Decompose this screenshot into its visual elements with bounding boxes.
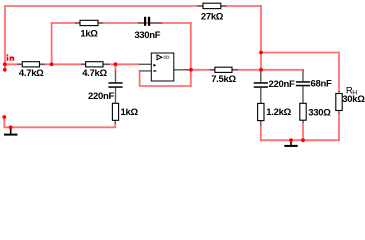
wire node branch vertical x51.6 (51, 23, 53, 64)
node dot J1 (259, 51, 263, 55)
svg-text:68nF: 68nF (311, 78, 332, 89)
lead R4.7k-1 right (40, 63, 46, 65)
svg-text:4.7kΩ: 4.7kΩ (82, 68, 107, 79)
capacitor 330nF plates (144, 17, 146, 26)
lead C220n-1 bottom (115, 88, 117, 104)
svg-text:330Ω: 330Ω (308, 108, 331, 119)
svg-text:4.7kΩ: 4.7kΩ (19, 68, 44, 79)
node dot bottomleft-C (2, 115, 6, 119)
lead R27k left (198, 5, 204, 7)
capacitor 68nF plates (296, 81, 310, 83)
ground left (4, 128, 17, 136)
svg-text:1kΩ: 1kΩ (121, 107, 139, 118)
wire input rail (5, 63, 139, 65)
node dot ground-left (9, 126, 13, 130)
op-amp U1 (151, 53, 174, 81)
svg-text:220nF: 220nF (88, 91, 114, 102)
node dot x51.6 (50, 62, 54, 66)
lead RH top (338, 91, 340, 94)
svg-text:1kΩ: 1kΩ (80, 29, 98, 40)
lead R1k-h left (75, 22, 80, 24)
wire feedback bottom (140, 71, 191, 86)
wire left vertical (4, 6, 6, 70)
wire RH bottom (338, 114, 340, 140)
capacitor 220nF-1 plates (108, 82, 122, 84)
lead opamp minus (140, 70, 152, 72)
resistor 1k-v body (112, 103, 118, 120)
lead R27k right (221, 5, 227, 7)
lead R330 bottom (302, 120, 304, 123)
resistor 27k body (203, 3, 221, 8)
wire bottom left rail (4, 117, 115, 127)
node dot opamp out (189, 68, 193, 72)
lead R7.5k left (210, 69, 215, 71)
lead R1k-v bottom (114, 120, 116, 124)
wire 1.2k bottom (260, 126, 262, 141)
node dot J2 (259, 68, 263, 72)
lead C68n top (302, 70, 304, 81)
wire rail to 68nF (261, 69, 303, 71)
wire rail2 horizontal y23 (52, 22, 191, 24)
lead C220n-1 top (115, 71, 117, 83)
resistor RH body (336, 94, 342, 111)
resistor 4.7k-2 body (86, 62, 103, 67)
lead C220n-2 bottom (260, 88, 262, 104)
resistor 1k-h body (80, 20, 98, 25)
node dot in-B (3, 68, 7, 72)
svg-text:30kΩ: 30kΩ (342, 94, 365, 105)
resistor 330 body (300, 103, 306, 120)
resistor 1.2k body (258, 103, 264, 120)
node dot ground-right (289, 138, 293, 142)
wire output rail (187, 69, 261, 71)
node dot 330 bottom (301, 138, 305, 142)
lead opamp plus (139, 63, 152, 65)
lead R7.5k right (232, 69, 238, 71)
node dot in-A (3, 62, 7, 66)
lead C330n right (150, 22, 162, 24)
lead RH bottom (338, 111, 340, 115)
wire 330 bottom (302, 123, 304, 140)
lead C330n left (138, 22, 144, 24)
lead R4.7k-2 left (81, 63, 86, 65)
svg-text:220nF: 220nF (269, 79, 295, 90)
svg-text:1.2kΩ: 1.2kΩ (266, 107, 291, 118)
svg-text:7.5kΩ: 7.5kΩ (211, 74, 236, 85)
ground right (284, 140, 297, 147)
svg-text:330nF: 330nF (134, 30, 160, 41)
label in (7, 54, 15, 61)
node dot x115.5 (114, 62, 118, 66)
resistor 4.7k-1 body (22, 62, 39, 67)
wire right vertical x261 (260, 6, 262, 70)
resistor 7.5k body (215, 67, 232, 72)
lead R1.2k bottom (260, 121, 262, 126)
wire branch y52.5 to RH (261, 53, 339, 92)
lead C220n-2 top (260, 70, 262, 82)
wire top rail (5, 5, 261, 7)
wire bottom right rail (261, 139, 339, 141)
wire feedback vertical x190.8 (190, 23, 192, 86)
lead R1k-h right (98, 22, 103, 24)
lead R4.7k-1 left (17, 63, 22, 65)
lead R4.7k-2 right (103, 63, 110, 65)
wire cap1 top stub red (115, 64, 117, 70)
capacitor 220nF-2 plates (254, 82, 268, 84)
svg-text:27kΩ: 27kΩ (201, 11, 224, 22)
lead opamp out (174, 69, 189, 71)
lead C68n bottom (302, 86, 304, 103)
